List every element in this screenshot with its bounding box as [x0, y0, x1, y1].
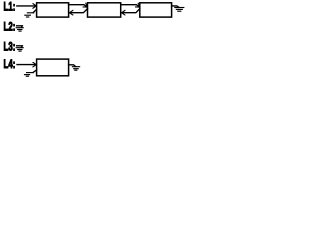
- wire prev-null stem of L4 node: [33, 70, 37, 72]
- wire next pointer box2 to box3: [121, 5, 140, 7]
- node L4 label: [4, 59, 16, 72]
- ground (NIL) at L1 tail: [175, 8, 184, 12]
- wire head L1: [17, 5, 37, 7]
- ground (NIL) at L4 tail: [72, 67, 79, 71]
- node box 1 of L1: [37, 3, 69, 17]
- node box 3 of L1: [140, 3, 172, 17]
- svg-text:L1:: L1:: [4, 1, 16, 14]
- svg-text:L3:: L3:: [4, 41, 16, 54]
- node L1 label: [4, 1, 16, 14]
- node box of L4: [37, 59, 69, 76]
- node L2 label: [4, 21, 16, 34]
- wire next pointer box1 to box2: [69, 5, 88, 7]
- wire head L4: [17, 64, 36, 66]
- ground (NIL) empty list L3: [16, 48, 23, 51]
- ground (NIL) below first node prev: [25, 13, 34, 17]
- ground (NIL) below L4 node prev: [25, 73, 34, 77]
- svg-text:L4:: L4:: [4, 59, 16, 72]
- wire next-null tail of L4: [69, 65, 76, 67]
- wire next-null tail of L1: [172, 6, 179, 7]
- wire head L2: [17, 26, 23, 27]
- node L3 label: [4, 41, 16, 54]
- wire prev pointer box2 to box1: [70, 9, 88, 13]
- wire prev pointer box3 to box2: [122, 9, 140, 13]
- wire prev-null stem of first node: [33, 9, 36, 12]
- node box 2 of L1: [88, 3, 121, 17]
- wire head L3: [17, 46, 23, 47]
- svg-text:L2:: L2:: [4, 21, 16, 34]
- ground (NIL) empty list L2: [16, 28, 23, 31]
